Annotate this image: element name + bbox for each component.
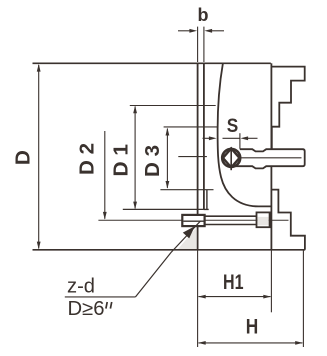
- shading triangle under leader arrow: [178, 228, 196, 249]
- body front curved face: [218, 63, 271, 206]
- bottom edge / D bottom extension line: [33, 249, 306, 251]
- bolt shank top line: [205, 215, 257, 217]
- svg-text:D: D: [12, 150, 34, 165]
- bolt axis line / D2 lower extension: [98, 219, 288, 221]
- jaw stepped profile bottom right: [271, 190, 305, 250]
- bolt end block: [257, 212, 270, 227]
- dimension S arrows and lines: [203, 136, 258, 140]
- bolt head mid line: [183, 220, 203, 222]
- dimension b extension lines: [198, 27, 204, 62]
- z-d underline: [65, 296, 136, 298]
- body back face vertical upper: [270, 63, 272, 149]
- socket axis line right: [240, 157, 302, 159]
- dimension D2 line with arrow: [103, 131, 107, 220]
- bolt end gray band: [257, 217, 268, 225]
- svg-text:b: b: [198, 5, 209, 25]
- leader arrowhead: [183, 226, 195, 238]
- svg-text:S: S: [227, 115, 239, 137]
- inch marks: [106, 302, 112, 309]
- bolt shank bottom line: [205, 224, 257, 226]
- top edge / D top extension line: [33, 62, 271, 64]
- dimension H1 line with arrows: [198, 295, 271, 299]
- dimension b arrows: [178, 29, 224, 33]
- dimension H line with arrows: [198, 341, 303, 345]
- body back face vertical lower: [270, 166, 272, 250]
- socket axis line left: [178, 156, 207, 158]
- flange front face vertical: [197, 63, 199, 250]
- svg-text:z-d: z-d: [67, 275, 95, 297]
- svg-text:D≥6: D≥6: [68, 298, 105, 320]
- key guide sleeve outline: [234, 149, 305, 168]
- chuck key socket circle: [222, 149, 240, 167]
- dimension S extension line: [239, 133, 241, 149]
- H right extension line: [302, 251, 304, 348]
- square key hole diamond: [223, 148, 240, 167]
- flange back face vertical: [203, 63, 205, 209]
- H1 H left extension line: [197, 251, 199, 348]
- dimension D3 extension bottom: [160, 189, 213, 191]
- jaw stepped profile top right: [271, 67, 304, 150]
- svg-text:H1: H1: [223, 271, 244, 294]
- svg-text:D 3: D 3: [142, 145, 164, 177]
- dimension D1 line with arrows: [133, 106, 137, 210]
- dimension D line with arrows: [37, 64, 41, 249]
- flange rear boss tab: [204, 190, 209, 210]
- dimension D3 line with arrows: [166, 128, 170, 189]
- H1 right extension line: [270, 251, 272, 313]
- svg-text:H: H: [246, 315, 259, 338]
- svg-text:D 1: D 1: [110, 144, 132, 177]
- leader line to bolt: [136, 221, 201, 297]
- dimension D3 extension top: [164, 126, 218, 128]
- dimension D1 extension bottom / flange bottom edge: [123, 208, 204, 210]
- dimension D1 extension top: [130, 105, 216, 107]
- svg-text:D 2: D 2: [77, 143, 99, 175]
- bolt head: [182, 215, 204, 226]
- socket vertical diameter line: [230, 147, 232, 170]
